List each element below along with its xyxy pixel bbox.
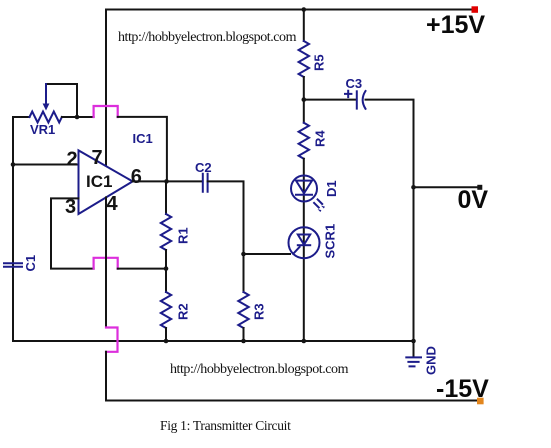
capacitor C1 bbox=[4, 255, 38, 272]
wire gate junction down to R3 bbox=[243, 254, 245, 292]
svg-text:R5: R5 bbox=[312, 54, 327, 71]
op-amp U1 (IC1 triangle) bbox=[79, 150, 133, 214]
svg-text:Fig 1: Transmitter Circuit: Fig 1: Transmitter Circuit bbox=[160, 418, 291, 433]
wire op-amp pin 4 down bbox=[105, 197, 107, 327]
wire bottom rail (ground rail) bbox=[13, 340, 414, 342]
node junction R1/R2/pin3 loop bbox=[164, 266, 169, 271]
svg-text:C1: C1 bbox=[23, 255, 38, 272]
svg-text:7: 7 bbox=[92, 147, 103, 169]
node +15V terminal (red square) bbox=[472, 6, 479, 13]
wire R4 through D1 and SCR1 down to bottom rail bbox=[303, 159, 305, 341]
node junction R3 / bottom rail bbox=[241, 339, 246, 344]
wire C3 to right rail, down to bottom rail bbox=[366, 100, 414, 341]
wire pin4 line to -15V rail bbox=[106, 352, 477, 401]
svg-text:0V: 0V bbox=[458, 186, 489, 214]
svg-text:http://hobbyelectron.blogspot.: http://hobbyelectron.blogspot.com bbox=[170, 362, 349, 377]
svg-text:GND: GND bbox=[424, 346, 439, 375]
svg-text:R1: R1 bbox=[176, 227, 191, 244]
node junction output / R1 / VR1 bbox=[164, 179, 169, 184]
wire from top rail down to op-amp pin 7 bbox=[105, 10, 107, 165]
svg-text:http://hobbyelectron.blogspot.: http://hobbyelectron.blogspot.com bbox=[118, 30, 297, 45]
wire VR1 to op-amp output junction bbox=[118, 117, 167, 181]
node junction right rail / 0V bbox=[411, 185, 416, 190]
wire C2 to R3 top / SCR gate bbox=[208, 181, 244, 254]
node junction top rail / R5 branch bbox=[302, 7, 307, 12]
wire R3 to bottom rail bbox=[243, 328, 245, 341]
node junction R2 / bottom rail bbox=[164, 339, 169, 344]
node junction VR1 wiper / right terminal bbox=[75, 115, 80, 120]
wire hop (pin4 line over bottom rail, magenta) bbox=[106, 328, 118, 352]
svg-text:R3: R3 bbox=[252, 303, 267, 320]
svg-text:R4: R4 bbox=[313, 130, 328, 147]
diode D1 (LED) bbox=[291, 176, 339, 213]
thyristor SCR1 bbox=[289, 224, 338, 259]
node -15V terminal (orange square) bbox=[477, 398, 484, 405]
ground GND bbox=[406, 341, 438, 375]
capacitor C3 (polarized) bbox=[304, 76, 366, 109]
wire 0V stub bbox=[414, 186, 479, 188]
wire R5 to R4 bbox=[303, 77, 305, 123]
node junction SCR branch / bottom rail bbox=[302, 339, 307, 344]
svg-text:SCR1: SCR1 bbox=[323, 224, 338, 259]
wire top +15V rail bbox=[106, 9, 472, 11]
wire hop (pin3 wire over pin4 line, magenta) bbox=[94, 258, 118, 269]
wire right branch from top rail down to R5 bbox=[303, 10, 305, 42]
node 0V terminal (black square) bbox=[477, 185, 482, 190]
node junction right rail / bottom rail bbox=[411, 339, 416, 344]
svg-text:2: 2 bbox=[67, 149, 78, 171]
svg-text:C2: C2 bbox=[195, 160, 212, 175]
svg-text:+15V: +15V bbox=[426, 11, 485, 39]
resistor R5 bbox=[299, 41, 309, 77]
wire pin3 loop to R1/R2 junction bbox=[118, 268, 166, 270]
wire op-amp output to C2 bbox=[133, 180, 203, 182]
svg-text:-15V: -15V bbox=[436, 375, 489, 403]
wire hop (VR1 wire over pin7 line, magenta) bbox=[94, 106, 118, 117]
node junction R5/R4/C3 bbox=[302, 97, 307, 102]
wire R2 to bottom rail bbox=[165, 328, 167, 341]
resistor R4 bbox=[299, 123, 309, 159]
svg-text:R2: R2 bbox=[176, 303, 191, 320]
svg-text:6: 6 bbox=[131, 166, 142, 188]
svg-text:D1: D1 bbox=[324, 180, 339, 197]
svg-text:IC1: IC1 bbox=[133, 131, 153, 146]
wire SCR1 gate bbox=[244, 253, 291, 255]
node junction R3 / gate bbox=[241, 252, 246, 257]
svg-text:C3: C3 bbox=[346, 76, 363, 91]
resistor R2 bbox=[161, 292, 171, 328]
svg-text:4: 4 bbox=[107, 193, 119, 215]
resistor R3 bbox=[238, 292, 248, 328]
svg-text:VR1: VR1 bbox=[30, 122, 55, 137]
node junction left rail / pin2 bbox=[11, 162, 16, 167]
capacitor C2 bbox=[195, 160, 212, 192]
svg-text:IC1: IC1 bbox=[86, 172, 112, 191]
resistor R1 bbox=[165, 181, 167, 214]
wire left rail bbox=[12, 117, 14, 341]
wire op-amp pin 3 loop bbox=[51, 198, 94, 268]
wire op-amp pin 2 input bbox=[13, 164, 79, 166]
wire R1 to R2 bbox=[165, 250, 167, 292]
potentiometer VR1 bbox=[13, 84, 94, 137]
